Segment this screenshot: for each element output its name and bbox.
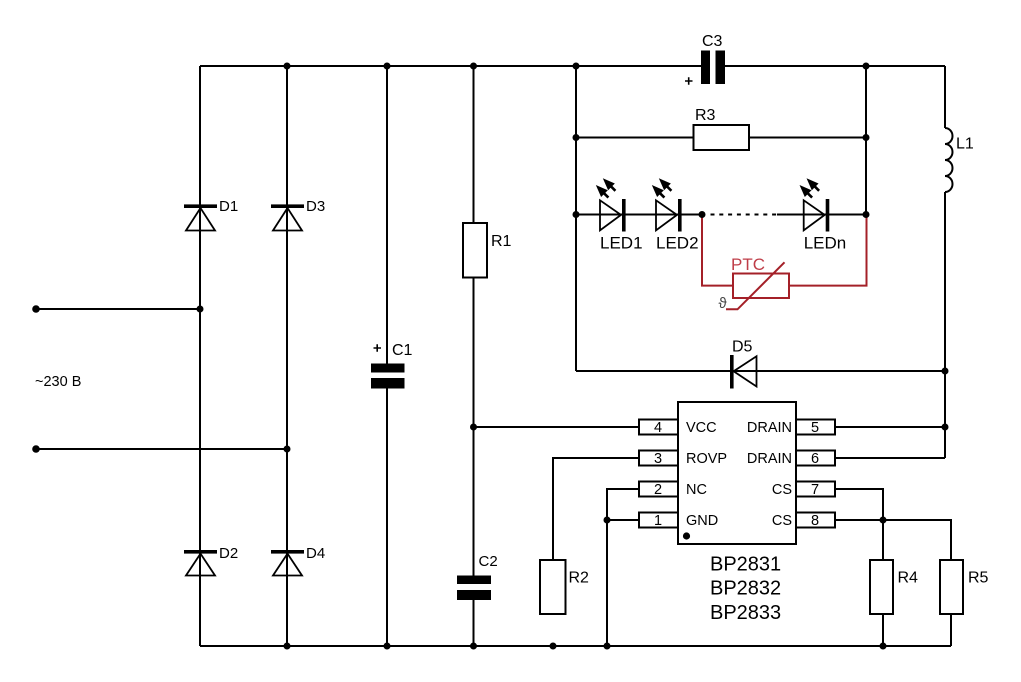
resistor R4 bbox=[870, 560, 918, 614]
wire top rail left of C3 bbox=[200, 65, 701, 67]
wire DRAIN pin5 bbox=[835, 426, 945, 428]
svg-text:VCC: VCC bbox=[686, 420, 717, 436]
svg-text:3: 3 bbox=[654, 451, 662, 467]
junction top rail x576 bbox=[573, 63, 580, 70]
svg-text:C2: C2 bbox=[479, 553, 498, 570]
wire input terminal top bbox=[36, 308, 200, 310]
pin 5 box bbox=[796, 420, 835, 437]
inductor L1 bbox=[945, 128, 953, 192]
wire CS pin8 to R5 bbox=[835, 520, 951, 560]
thermistor PTC bbox=[719, 255, 790, 312]
junction input bottom / bridge bbox=[284, 446, 291, 453]
junction top rail D3 bbox=[284, 63, 291, 70]
svg-text:D5: D5 bbox=[732, 339, 753, 356]
capacitor C1 bbox=[371, 342, 413, 389]
junction top rail R1 bbox=[470, 63, 477, 70]
wire top rail right of C3 bbox=[725, 65, 946, 67]
wire R1/C2 branch upper bbox=[473, 66, 475, 576]
wire right vertical above L1 bbox=[944, 66, 946, 128]
svg-text:L1: L1 bbox=[956, 136, 974, 153]
wire input terminal bottom bbox=[36, 448, 287, 450]
svg-text:~230 В: ~230 В bbox=[35, 374, 81, 390]
junction D5 row right bbox=[942, 368, 949, 375]
LED LEDn bbox=[801, 179, 847, 252]
svg-text:ROVP: ROVP bbox=[686, 451, 727, 467]
wire R5 bottom lead bbox=[950, 614, 952, 646]
svg-text:7: 7 bbox=[811, 482, 819, 498]
wire LED return vertical x866 bbox=[865, 66, 867, 215]
pin 6 box bbox=[796, 451, 835, 468]
wire R4 top lead bbox=[882, 520, 884, 560]
svg-text:BP2832: BP2832 bbox=[710, 578, 781, 600]
resistor R5 bbox=[940, 560, 989, 614]
terminal input top bbox=[32, 305, 40, 313]
svg-text:GND: GND bbox=[686, 513, 718, 529]
pin 7 box bbox=[796, 482, 835, 499]
capacitor C3 bbox=[685, 33, 725, 85]
svg-text:D2: D2 bbox=[219, 545, 238, 562]
diode D5 bbox=[730, 339, 757, 389]
svg-text:BP2831: BP2831 bbox=[710, 554, 781, 576]
wire LED feed vertical x576 bbox=[575, 66, 577, 371]
pin 4 box bbox=[639, 420, 678, 437]
LED LED2 bbox=[653, 179, 699, 252]
svg-text:R3: R3 bbox=[695, 107, 716, 124]
svg-text:LEDn: LEDn bbox=[804, 234, 847, 253]
IC U1 BP283x body bbox=[678, 402, 796, 544]
junction GND wire bbox=[604, 517, 611, 524]
resistor R1 bbox=[463, 223, 512, 278]
wire CS pin7 bbox=[835, 489, 883, 520]
wire right vertical below L1 bbox=[944, 192, 946, 458]
wire LED row solid left bbox=[576, 214, 703, 216]
svg-text:2: 2 bbox=[654, 482, 662, 498]
pin 3 box bbox=[639, 451, 678, 468]
wire VCC to R1 branch bbox=[474, 426, 640, 428]
wire R3 row bbox=[576, 137, 866, 139]
svg-text:8: 8 bbox=[811, 513, 819, 529]
pin 8 box bbox=[796, 513, 835, 530]
junction R3 row left bbox=[573, 134, 580, 141]
svg-text:LED2: LED2 bbox=[656, 234, 699, 253]
wire DRAIN pin6 bbox=[835, 457, 945, 459]
svg-text:PTC: PTC bbox=[731, 255, 765, 274]
svg-text:D1: D1 bbox=[219, 198, 238, 215]
svg-text:ϑ: ϑ bbox=[719, 295, 728, 312]
wire PTC left red lead bbox=[702, 215, 733, 286]
svg-text:R4: R4 bbox=[898, 570, 919, 587]
pin 2 box bbox=[639, 482, 678, 499]
diode D2 bbox=[184, 545, 238, 576]
svg-text:R5: R5 bbox=[968, 570, 989, 587]
wire D5 row bbox=[576, 370, 945, 372]
wire LED row dotted middle bbox=[711, 214, 779, 216]
wire PTC right red lead bbox=[789, 215, 867, 286]
resistor R3 bbox=[694, 107, 750, 150]
wire ROVP to R2 bbox=[553, 458, 639, 560]
svg-text:NC: NC bbox=[686, 482, 707, 498]
pin 1 marker dot bbox=[683, 532, 690, 539]
junction input top / bridge bbox=[197, 306, 204, 313]
junction LED row left bbox=[573, 211, 580, 218]
svg-text:4: 4 bbox=[654, 420, 662, 436]
svg-text:6: 6 bbox=[811, 451, 819, 467]
diode D3 bbox=[271, 198, 325, 231]
wire bottom rail bbox=[200, 645, 951, 647]
svg-text:CS: CS bbox=[772, 513, 792, 529]
LED LED1 bbox=[597, 179, 643, 252]
svg-text:C1: C1 bbox=[392, 342, 413, 359]
svg-text:DRAIN: DRAIN bbox=[747, 420, 792, 436]
pin 1 box bbox=[639, 513, 678, 530]
junction bottom rail C1 bbox=[384, 643, 391, 650]
junction bottom rail R4 bbox=[880, 643, 887, 650]
wire GND pin bbox=[607, 519, 639, 521]
capacitor C2 bbox=[457, 553, 498, 600]
svg-text:R2: R2 bbox=[569, 570, 590, 587]
svg-text:CS: CS bbox=[772, 482, 792, 498]
svg-text:C3: C3 bbox=[702, 33, 723, 50]
junction LED row PTC tap bbox=[699, 211, 706, 218]
junction CS row R4 bbox=[880, 517, 887, 524]
svg-text:5: 5 bbox=[811, 420, 819, 436]
wire NC down to ground rail bbox=[607, 489, 639, 646]
wire C1 branch upper bbox=[386, 66, 388, 364]
svg-text:BP2833: BP2833 bbox=[710, 602, 781, 624]
junction R3 row right bbox=[863, 134, 870, 141]
diode D1 bbox=[184, 198, 238, 231]
terminal input bottom bbox=[32, 445, 40, 453]
svg-text:R1: R1 bbox=[491, 233, 512, 250]
wire D3/D4 branch bbox=[286, 66, 288, 646]
svg-text:1: 1 bbox=[654, 513, 662, 529]
resistor R2 bbox=[540, 560, 589, 614]
junction bottom rail C2 bbox=[470, 643, 477, 650]
junction DRAIN row right bbox=[942, 424, 949, 431]
diode D4 bbox=[271, 545, 325, 576]
wire C2 branch lower bbox=[473, 600, 475, 647]
junction bottom rail R2 bbox=[550, 643, 557, 650]
junction bottom rail D4 bbox=[284, 643, 291, 650]
wire left vertical D1/D2 branch bbox=[199, 66, 201, 646]
svg-text:LED1: LED1 bbox=[600, 234, 643, 253]
svg-text:D4: D4 bbox=[306, 545, 325, 562]
wire R4 bottom lead bbox=[882, 614, 884, 646]
junction top rail x866 bbox=[863, 63, 870, 70]
wire C1 branch lower bbox=[386, 389, 388, 647]
wire LED row solid right bbox=[777, 214, 866, 216]
junction VCC / R1 bbox=[470, 424, 477, 431]
svg-text:DRAIN: DRAIN bbox=[747, 451, 792, 467]
junction bottom rail GND bbox=[604, 643, 611, 650]
junction LED row right bbox=[863, 211, 870, 218]
junction top rail C1 bbox=[384, 63, 391, 70]
svg-text:D3: D3 bbox=[306, 198, 325, 215]
